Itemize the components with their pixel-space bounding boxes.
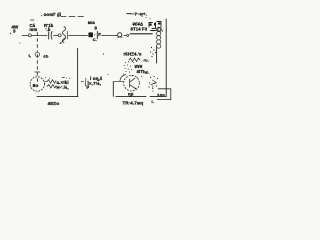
wire (main horizontal, left)	[22, 35, 28, 37]
transistor TR1 symbol	[130, 78, 136, 88]
svg-text:Ї×.7⅓,: Ї×.7⅓,	[87, 80, 102, 86]
svg-text:мıa: мıa	[88, 20, 96, 25]
gang cross tick	[35, 71, 40, 73]
right bus vertical wire	[165, 19, 167, 97]
wire	[102, 35, 118, 37]
marks -( u	[82, 80, 87, 87]
svg-text:8o: 8o	[33, 83, 39, 89]
terminal omega	[118, 33, 122, 37]
wire	[54, 35, 58, 37]
svg-text:. ooml' di: . ooml' di	[41, 12, 61, 17]
speaker box (top right)	[149, 22, 161, 31]
wire (upper segment to transformer)	[130, 33, 152, 35]
dots	[45, 77, 46, 78]
transistor TR1 dotted circle	[124, 75, 140, 91]
emitter drop wire	[112, 82, 114, 97]
resistor R1	[45, 80, 57, 84]
label C6	[31, 19, 35, 21]
svg-text:8T14 F3: 8T14 F3	[131, 27, 148, 32]
tick	[10, 33, 11, 34]
wire stub with node	[124, 34, 127, 36]
battery box (bottom right)	[157, 89, 171, 100]
svg-text:TR·4.7ʍƞ: TR·4.7ʍƞ	[123, 100, 144, 105]
dot	[19, 42, 20, 43]
diode blob D1	[88, 32, 93, 37]
svg-text:4ITI: 4ITI	[137, 69, 145, 74]
starburst (scribble above transistor)	[125, 62, 126, 63]
bottom wire (left)	[37, 96, 78, 98]
dot	[108, 74, 109, 75]
svg-text:£b: £b	[44, 54, 49, 59]
svg-text:r5HΞ4.'s: r5HΞ4.'s	[124, 52, 143, 57]
variable capacitor VC1 dashed circle	[30, 77, 44, 91]
svg-text:C.: C.	[93, 37, 97, 42]
dots trailing from caption	[142, 16, 143, 17]
base wire	[113, 81, 123, 83]
centre vertical wire	[77, 49, 79, 97]
coil L1 (vertical squiggle)	[62, 27, 65, 43]
svg-text:ŋp: ŋp	[128, 92, 134, 97]
resistor R2 zigzag	[129, 58, 140, 62]
core dots	[151, 47, 152, 48]
transistor TR2 scribble	[150, 77, 151, 78]
svg-text:45Ξο: 45Ξο	[48, 101, 60, 107]
svg-text:'.b: '.b	[46, 27, 51, 32]
transformer lead	[156, 47, 158, 63]
trimmer circle on gang line	[35, 52, 39, 56]
pin tick	[66, 32, 68, 40]
svg-text:ru.: ru.	[144, 58, 149, 63]
wire	[32, 35, 47, 37]
svg-text:mm: mm	[30, 27, 38, 32]
curve into base wire	[120, 75, 126, 82]
bottom wire (right)	[116, 96, 146, 98]
svg-text:i.: i.	[152, 99, 154, 104]
resistor R1b	[47, 85, 56, 89]
transformer T1 primary coil	[157, 27, 161, 31]
dotted column	[152, 85, 153, 86]
capacitor C1	[49, 32, 52, 40]
svg-text:~?~и+.: ~?~и+.	[132, 11, 148, 16]
wire	[69, 35, 88, 37]
svg-text:Łʋc: Łʋc	[158, 92, 166, 97]
capacitor C2	[94, 34, 95, 35]
svg-text:F: F	[98, 32, 101, 37]
stray dots	[132, 76, 133, 77]
small marks	[62, 77, 65, 79]
svg-text:t,: t,	[29, 53, 32, 58]
dashed gang line (vertical)	[36, 33, 38, 82]
node terminal circle	[28, 34, 31, 37]
svg-text:H·'.½,: H·'.½,	[57, 85, 69, 90]
dashed net line (top)	[58, 16, 84, 18]
meter terminal circle	[58, 34, 61, 37]
wiper arrow	[60, 39, 65, 44]
